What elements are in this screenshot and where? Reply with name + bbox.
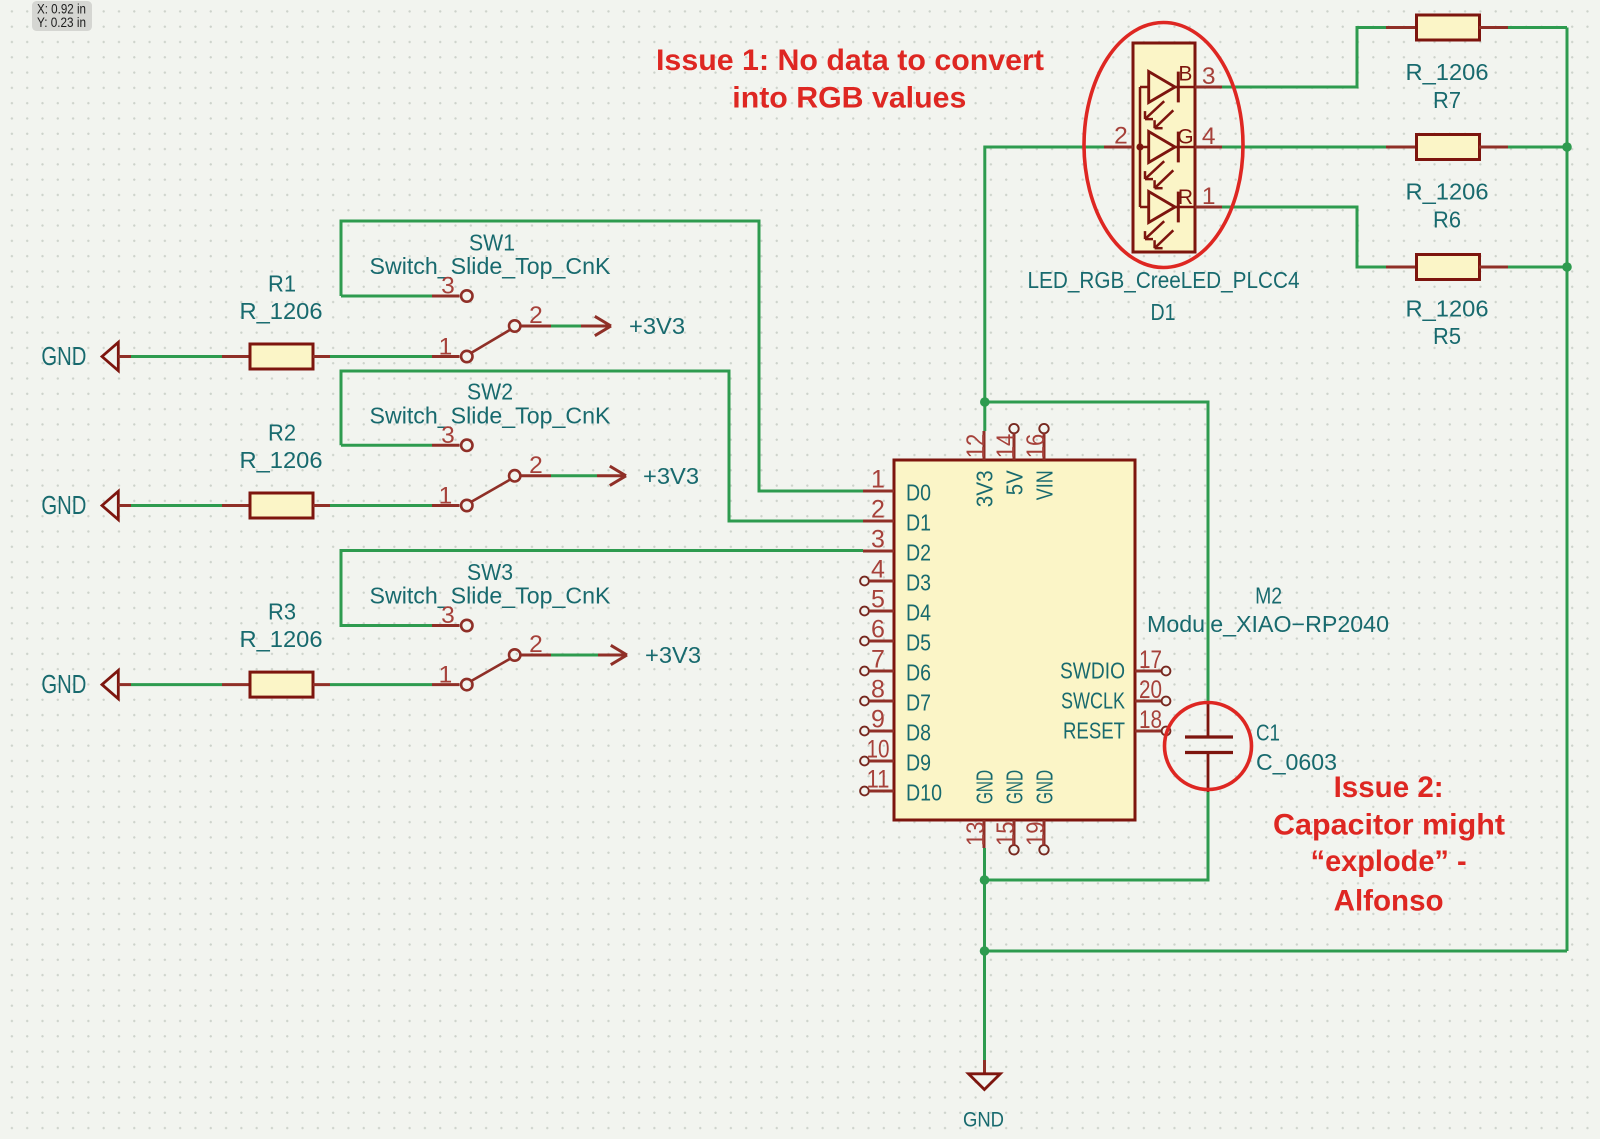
svg-text:RESET: RESET [1063, 718, 1125, 744]
svg-text:+3V3: +3V3 [645, 642, 701, 668]
svg-text:M2: M2 [1255, 583, 1282, 609]
svg-text:D1: D1 [906, 510, 931, 536]
svg-text:D9: D9 [906, 750, 931, 776]
svg-text:D3: D3 [906, 570, 931, 596]
svg-text:D7: D7 [906, 690, 931, 716]
svg-text:R7: R7 [1433, 87, 1461, 113]
svg-text:5: 5 [871, 586, 885, 614]
svg-text:GND: GND [41, 492, 86, 520]
svg-text:15: 15 [992, 822, 1020, 847]
svg-text:R_1206: R_1206 [240, 447, 323, 473]
svg-text:9: 9 [871, 706, 885, 734]
svg-text:Switch_Slide_Top_CnK: Switch_Slide_Top_CnK [370, 403, 612, 429]
svg-text:Switch_Slide_Top_CnK: Switch_Slide_Top_CnK [370, 583, 612, 609]
svg-text:SW3: SW3 [467, 559, 513, 585]
svg-text:D8: D8 [906, 720, 931, 746]
svg-text:Issue 1: No data to convert: Issue 1: No data to convert [656, 44, 1044, 77]
svg-text:GND: GND [963, 1108, 1004, 1131]
svg-text:GND: GND [1002, 770, 1028, 804]
svg-text:5V: 5V [1002, 470, 1028, 496]
svg-text:19: 19 [1022, 822, 1050, 847]
svg-text:R_1206: R_1206 [240, 298, 323, 324]
svg-text:1: 1 [439, 334, 453, 361]
svg-text:SW2: SW2 [467, 379, 513, 405]
svg-text:3V3: 3V3 [972, 470, 998, 507]
svg-text:2: 2 [529, 452, 543, 479]
svg-text:B: B [1178, 63, 1192, 86]
svg-text:14: 14 [992, 434, 1020, 459]
svg-text:8: 8 [871, 676, 885, 704]
svg-text:D10: D10 [906, 780, 942, 806]
svg-text:20: 20 [1139, 676, 1162, 704]
svg-text:+3V3: +3V3 [643, 463, 699, 489]
svg-text:12: 12 [962, 434, 990, 459]
svg-text:3: 3 [441, 422, 455, 449]
svg-text:2: 2 [1114, 123, 1128, 150]
svg-text:R: R [1178, 186, 1193, 209]
svg-text:GND: GND [972, 770, 998, 804]
svg-text:G: G [1177, 126, 1193, 149]
svg-text:R_1206: R_1206 [1406, 59, 1489, 85]
svg-text:2: 2 [529, 302, 543, 329]
svg-text:+3V3: +3V3 [629, 313, 685, 339]
svg-text:D1: D1 [1151, 299, 1176, 325]
svg-text:17: 17 [1139, 646, 1162, 674]
svg-text:into RGB values: into RGB values [732, 82, 966, 115]
svg-text:SWCLK: SWCLK [1061, 688, 1126, 714]
svg-text:R_1206: R_1206 [1406, 179, 1489, 205]
svg-text:“explode” -: “explode” - [1311, 845, 1467, 878]
svg-text:1: 1 [871, 466, 885, 494]
svg-text:3: 3 [871, 526, 885, 554]
svg-text:6: 6 [871, 616, 885, 644]
svg-text:4: 4 [871, 556, 885, 584]
svg-text:11: 11 [867, 766, 890, 794]
svg-text:R3: R3 [268, 598, 296, 624]
svg-text:SW1: SW1 [469, 229, 515, 255]
svg-text:2: 2 [529, 631, 543, 658]
svg-text:C_0603: C_0603 [1256, 749, 1337, 775]
svg-text:D2: D2 [906, 540, 931, 566]
svg-text:7: 7 [871, 646, 885, 674]
svg-text:3: 3 [441, 602, 455, 629]
svg-text:D5: D5 [906, 630, 931, 656]
svg-text:13: 13 [962, 822, 990, 847]
svg-text:2: 2 [871, 496, 885, 524]
svg-text:1: 1 [439, 483, 453, 510]
svg-text:Module_XIAO−RP2040: Module_XIAO−RP2040 [1147, 611, 1389, 637]
svg-text:VIN: VIN [1032, 470, 1058, 500]
svg-text:Switch_Slide_Top_CnK: Switch_Slide_Top_CnK [370, 253, 612, 279]
svg-text:C1: C1 [1256, 720, 1280, 746]
svg-text:D4: D4 [906, 600, 931, 626]
svg-text:R6: R6 [1433, 207, 1461, 233]
svg-text:10: 10 [867, 736, 890, 764]
svg-text:LED_RGB_CreeLED_PLCC4: LED_RGB_CreeLED_PLCC4 [1028, 267, 1300, 293]
svg-text:R_1206: R_1206 [240, 626, 323, 652]
svg-text:R_1206: R_1206 [1406, 296, 1489, 322]
svg-text:Alfonso: Alfonso [1334, 885, 1444, 918]
svg-text:16: 16 [1022, 434, 1050, 459]
svg-text:SWDIO: SWDIO [1060, 658, 1125, 684]
svg-text:D0: D0 [906, 480, 931, 506]
svg-text:R1: R1 [268, 270, 296, 296]
svg-text:R2: R2 [268, 419, 296, 445]
svg-text:D6: D6 [906, 660, 931, 686]
svg-text:3: 3 [441, 273, 455, 300]
svg-text:GND: GND [41, 671, 86, 699]
svg-text:GND: GND [41, 343, 86, 371]
svg-text:Issue 2:: Issue 2: [1334, 771, 1444, 804]
svg-text:18: 18 [1139, 706, 1162, 734]
svg-text:Y: 0.23 in: Y: 0.23 in [37, 15, 86, 30]
svg-text:R5: R5 [1433, 323, 1461, 349]
svg-text:1: 1 [439, 662, 453, 689]
svg-text:GND: GND [1032, 770, 1058, 804]
svg-text:Capacitor might: Capacitor might [1273, 808, 1505, 841]
